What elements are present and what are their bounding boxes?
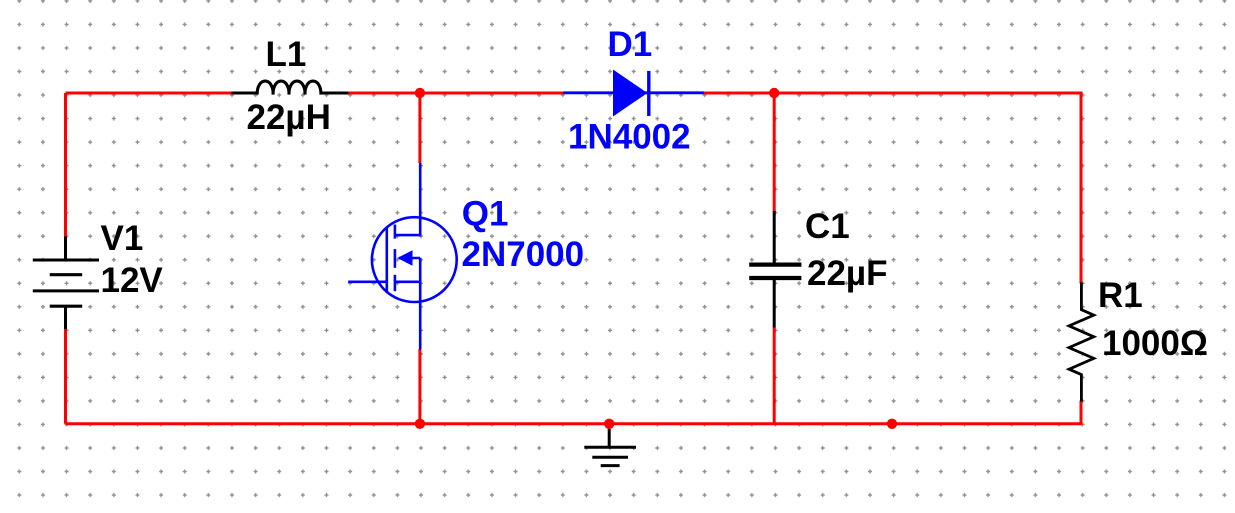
svg-text:Q1: Q1: [462, 194, 509, 233]
svg-text:1N4002: 1N4002: [568, 118, 691, 157]
node junction ground: [604, 419, 614, 429]
wire mosfet source: [418, 349, 421, 424]
battery V1: [33, 237, 99, 330]
wire mosfet drain: [418, 93, 421, 163]
svg-text:D1: D1: [608, 25, 653, 64]
diode D1: [563, 71, 704, 117]
svg-text:2N7000: 2N7000: [462, 235, 585, 274]
svg-text:V1: V1: [101, 219, 144, 258]
inductor L1: [232, 81, 349, 95]
svg-text:C1: C1: [805, 207, 850, 246]
transistor Q1: [348, 163, 457, 350]
svg-text:22µF: 22µF: [807, 254, 887, 293]
svg-text:12V: 12V: [101, 261, 164, 300]
node junction bottom source: [415, 419, 425, 429]
wire top rail middle segment: [348, 92, 565, 95]
wire top rail right segment: [703, 93, 1081, 284]
resistor R1: [1069, 283, 1094, 402]
svg-text:22µH: 22µH: [247, 98, 331, 137]
svg-text:R1: R1: [1098, 276, 1143, 315]
capacitor C1: [749, 211, 801, 328]
node junction top cap: [769, 88, 779, 98]
svg-text:L1: L1: [266, 35, 307, 74]
wire capacitor top: [773, 93, 776, 212]
wire battery bottom lead: [64, 329, 67, 424]
wire top rail left segment: [66, 92, 234, 95]
wire bottom rail: [66, 401, 1082, 424]
svg-text:1000Ω: 1000Ω: [1102, 324, 1208, 363]
wire battery top lead: [64, 93, 67, 237]
node junction top drain: [415, 88, 425, 98]
wire capacitor bottom: [773, 327, 776, 424]
ground: [584, 424, 636, 466]
node junction bottom right: [887, 419, 897, 429]
